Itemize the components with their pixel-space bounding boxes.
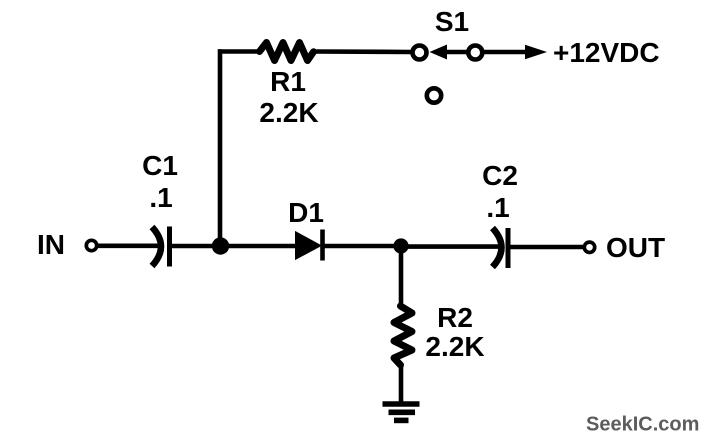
capacitor C1 xyxy=(152,227,161,266)
diode D1 xyxy=(296,233,320,259)
switch S1 wiper arrow (left) xyxy=(430,45,448,60)
ground xyxy=(383,401,420,407)
svg-text:.1: .1 xyxy=(149,182,172,213)
svg-text:R2: R2 xyxy=(437,302,473,333)
svg-text:OUT: OUT xyxy=(606,232,665,263)
svg-text:2.2K: 2.2K xyxy=(425,331,484,362)
capacitor C2 xyxy=(493,228,502,267)
svg-text:C2: C2 xyxy=(482,160,518,191)
wire R2 to ground xyxy=(399,363,404,402)
wire top rail right (R1 to S1) xyxy=(314,49,411,54)
svg-text:2.2K: 2.2K xyxy=(259,97,318,128)
wire C1 to node A xyxy=(172,244,226,249)
wire node B to R2 xyxy=(399,246,404,308)
switch S1 unused contact xyxy=(427,88,441,102)
wire C2 to OUT xyxy=(511,245,585,250)
wire top rail left (node to R1) xyxy=(218,49,258,54)
svg-text:D1: D1 xyxy=(288,197,324,228)
resistor R2 xyxy=(394,306,412,365)
node B junction dot xyxy=(393,238,408,253)
wire node A to D1 xyxy=(220,244,297,249)
wire vertical node stem xyxy=(218,49,223,246)
wire D1 to node B xyxy=(323,244,406,249)
svg-text:S1: S1 xyxy=(435,6,469,37)
svg-text:SeekIC.com: SeekIC.com xyxy=(586,414,699,436)
wire node B to C2 xyxy=(401,244,502,249)
switch S1 pole contact xyxy=(413,46,427,60)
svg-text:IN: IN xyxy=(37,229,65,260)
svg-text:C1: C1 xyxy=(142,150,178,181)
svg-text:+12VDC: +12VDC xyxy=(553,37,660,68)
resistor R1 xyxy=(260,43,314,61)
wire to +12VDC with arrow xyxy=(484,50,528,55)
svg-text:R1: R1 xyxy=(270,66,306,97)
terminal OUT xyxy=(584,242,594,252)
svg-text:.1: .1 xyxy=(486,192,509,223)
wire IN to C1 xyxy=(98,244,163,249)
switch S1 throw contact xyxy=(468,46,482,60)
node A junction dot xyxy=(212,237,229,254)
